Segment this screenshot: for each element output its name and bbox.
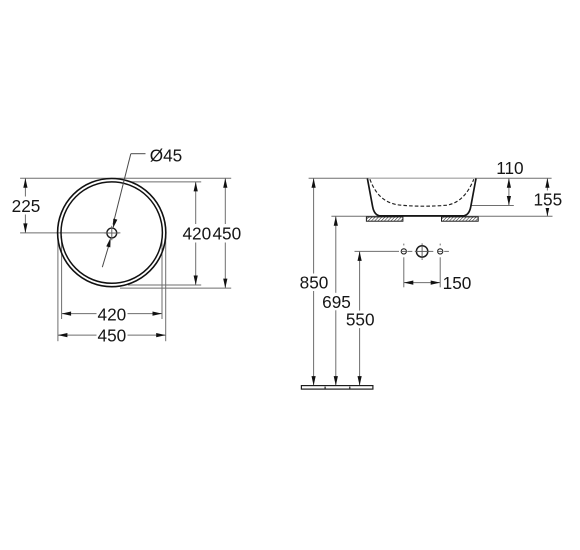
svg-text:155: 155 <box>533 190 562 210</box>
svg-text:110: 110 <box>496 158 523 178</box>
svg-text:150: 150 <box>443 273 472 293</box>
svg-text:450: 450 <box>212 224 241 244</box>
svg-text:450: 450 <box>98 325 127 345</box>
svg-text:225: 225 <box>12 196 41 216</box>
svg-text:550: 550 <box>346 310 375 330</box>
svg-text:420: 420 <box>182 224 211 244</box>
svg-text:420: 420 <box>98 304 127 324</box>
svg-text:850: 850 <box>300 273 329 293</box>
svg-text:Ø45: Ø45 <box>150 146 183 166</box>
